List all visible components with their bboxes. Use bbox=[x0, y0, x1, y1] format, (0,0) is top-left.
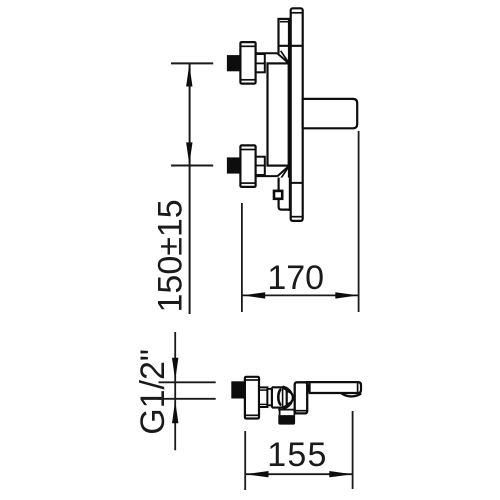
extension tick bottom bbox=[171, 165, 213, 167]
arrow right bbox=[329, 471, 352, 477]
extension line top (knob top) bbox=[159, 381, 216, 383]
extension line bottom (knob bottom) bbox=[159, 398, 216, 400]
bv aerator arc bbox=[342, 394, 362, 397]
dimension line 170 bbox=[242, 294, 359, 296]
bv body bar bbox=[295, 382, 308, 413]
bv connector bbox=[259, 387, 267, 407]
dimension line 150 bbox=[189, 63, 191, 314]
bv outlet stub bbox=[278, 408, 295, 415]
top handle inner lines bbox=[241, 45, 255, 47]
extension line left (handle front) bbox=[241, 203, 243, 312]
bv flange bbox=[267, 389, 272, 405]
extension line right (spout tip) bbox=[358, 131, 360, 312]
wall plate edge across spout bbox=[302, 98, 304, 130]
valve housing (behind plate) bbox=[278, 18, 290, 211]
wall plate bbox=[291, 8, 303, 221]
bottom valve connector bbox=[255, 157, 264, 175]
top valve connector centerline bbox=[255, 62, 264, 64]
mid body between valves bbox=[268, 63, 289, 165]
spout tee (side profile) bbox=[303, 99, 357, 128]
bottom valve connector centerline bbox=[255, 165, 264, 167]
arrow down to top line bbox=[172, 358, 178, 381]
arrow up bbox=[186, 64, 192, 86]
arrow up to bottom line bbox=[172, 401, 178, 424]
top knob (black) bbox=[227, 55, 241, 71]
extension tick top bbox=[171, 62, 213, 64]
top valve escutcheon cone bbox=[256, 51, 289, 64]
dimension line G1/2 bbox=[174, 332, 176, 450]
svg-text:170: 170 bbox=[267, 259, 324, 297]
bv cartridge block bbox=[272, 387, 284, 407]
bottom handle inner lines bbox=[241, 149, 255, 151]
bv outlet (black) bbox=[278, 415, 295, 425]
bv knob (black) bbox=[231, 381, 245, 398]
arrow down bbox=[186, 142, 192, 164]
arrow right bbox=[335, 292, 358, 298]
svg-text:G1/2": G1/2" bbox=[134, 349, 172, 435]
wall plate top inner line bbox=[291, 12, 303, 14]
top valve connector bbox=[255, 54, 264, 72]
bv connector inner lines bbox=[259, 389, 267, 391]
extension line right bbox=[352, 411, 354, 489]
bottom valve escutcheon cone bbox=[256, 165, 289, 179]
body lower ledge line bbox=[279, 182, 303, 184]
bv cartridge dome bbox=[278, 387, 293, 408]
dimension line 155 bbox=[245, 473, 352, 475]
svg-text:155: 155 bbox=[267, 436, 327, 474]
wall plate bottom inner line bbox=[291, 216, 303, 218]
arrow left bbox=[245, 471, 268, 477]
valve housing top inner line bbox=[280, 21, 289, 23]
top handle body bbox=[240, 42, 255, 84]
bv handle inner lines bbox=[246, 379, 259, 381]
body upper ledge line bbox=[279, 45, 303, 47]
bottom handle body bbox=[240, 145, 255, 187]
bv body bar bottom inner line bbox=[295, 410, 307, 412]
extension line left bbox=[244, 431, 246, 490]
bv spout bbox=[307, 382, 361, 393]
arrow left bbox=[242, 292, 265, 298]
bottom knob (black) bbox=[227, 157, 241, 173]
hose outlet (below bottom valve) bbox=[279, 178, 290, 210]
svg-text:150±15: 150±15 bbox=[152, 199, 190, 312]
bv handle body bbox=[245, 377, 259, 419]
outlet side knob bbox=[274, 191, 282, 199]
